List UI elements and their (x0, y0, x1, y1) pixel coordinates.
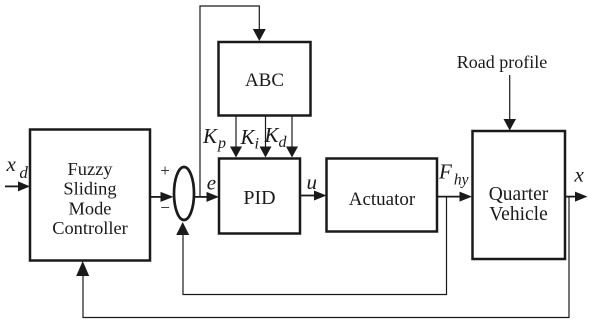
svg-text:Quarter: Quarter (489, 184, 549, 205)
svg-text:Controller: Controller (52, 218, 128, 238)
svg-text:u: u (307, 170, 318, 194)
svg-text:Actuator: Actuator (349, 189, 416, 210)
svg-text:Vehicle: Vehicle (489, 204, 547, 225)
svg-text:Road profile: Road profile (457, 52, 547, 72)
svg-text:PID: PID (243, 187, 275, 209)
svg-text:Mode: Mode (69, 199, 112, 219)
svg-text:ABC: ABC (245, 70, 284, 91)
svg-text:x: x (574, 163, 585, 187)
svg-text:+: + (160, 161, 170, 180)
svg-text:Sliding: Sliding (63, 179, 116, 199)
svg-text:Fuzzy: Fuzzy (68, 159, 114, 179)
svg-text:e: e (207, 171, 216, 195)
svg-text:−: − (160, 198, 170, 217)
